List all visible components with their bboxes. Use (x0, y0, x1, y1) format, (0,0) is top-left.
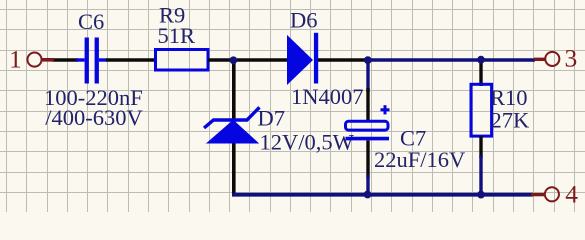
terminal 1 (27, 53, 54, 67)
wire: terminal 1 to C6 (52, 58, 78, 62)
diode D6 (287, 33, 318, 85)
junction: C7 on bottom rail (364, 191, 372, 199)
svg-text:D7: D7 (258, 106, 286, 131)
label C7 value 22uF/16V (374, 147, 465, 172)
svg-text:4: 4 (565, 180, 578, 209)
svg-text:12V/0,5W: 12V/0,5W (260, 130, 355, 155)
svg-text:22uF/16V: 22uF/16V (374, 147, 465, 172)
label C7 (400, 126, 426, 151)
label R9 (159, 3, 185, 28)
label R10 value 27K (491, 108, 531, 133)
label C6 value /400-630V (45, 105, 143, 130)
wire: node A to D6 anode (233, 58, 288, 62)
capacitor C7 (polarized) (346, 105, 390, 138)
wire: node B down to C7 plus pin (366, 60, 369, 122)
resistor R10 (471, 84, 492, 136)
wire: bottom rail (232, 193, 533, 197)
label terminal 1 (9, 45, 22, 74)
wire: node C down to R10 (479, 60, 482, 86)
junction node B (364, 56, 372, 64)
svg-text:1N4007: 1N4007 (291, 84, 364, 109)
resistor R9 (156, 50, 209, 71)
junction: R10 on bottom rail (477, 191, 485, 199)
svg-text:3: 3 (565, 44, 578, 73)
wire: R10 down to bottom rail (479, 136, 482, 196)
label terminal 3 (565, 44, 578, 73)
capacitor C6 (76, 38, 107, 84)
svg-text:D6: D6 (290, 8, 318, 33)
wire: R9 to node A (208, 58, 233, 62)
junction node A (230, 56, 238, 64)
wire: C6 to R9 (106, 58, 156, 62)
terminal 3 (534, 52, 559, 66)
label D7 value 12V/0,5W (260, 130, 355, 155)
label terminal 4 (565, 180, 578, 209)
label D6 value 1N4007 (291, 84, 364, 109)
terminal 4 (531, 187, 559, 201)
junction node C (477, 56, 485, 64)
label C6 (78, 9, 104, 34)
svg-text:27K: 27K (491, 108, 531, 133)
svg-text:1: 1 (9, 45, 22, 74)
label C6 value 100-220nF (44, 85, 143, 110)
label R9 value 51R (158, 23, 196, 48)
wire: C7 minus pin down to bottom rail (366, 141, 369, 197)
wire: node B to node C (368, 58, 535, 62)
label D6 (290, 8, 318, 33)
svg-text:/400-630V: /400-630V (45, 105, 143, 130)
wire: D6 cathode to node B (318, 58, 368, 62)
wire: node A down through D7 to bottom rail (232, 60, 236, 196)
label D7 (258, 106, 286, 131)
svg-text:R10: R10 (490, 85, 528, 110)
svg-text:C6: C6 (78, 9, 104, 34)
label R10 (490, 85, 528, 110)
svg-text:51R: 51R (158, 23, 196, 48)
zener diode D7 (204, 107, 260, 143)
